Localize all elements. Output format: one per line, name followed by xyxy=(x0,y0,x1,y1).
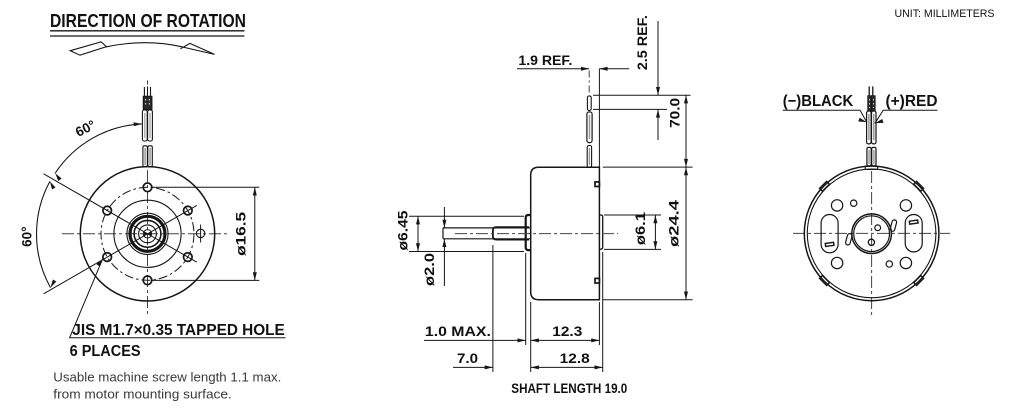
front tapped hole upper-right xyxy=(184,206,193,215)
rotation arrow open head left xyxy=(70,42,106,55)
svg-text:1.9 REF.: 1.9 REF. xyxy=(518,53,572,68)
rear oval slot left xyxy=(821,215,838,253)
arrow arc2 bottom xyxy=(51,280,57,288)
rear capsule right of bearing xyxy=(890,219,897,231)
body top extension right xyxy=(603,166,693,168)
arrow arc1 at bundle xyxy=(134,122,142,126)
front side small hole xyxy=(196,229,204,237)
front thick circle r17.7 xyxy=(130,216,165,251)
side body xyxy=(531,167,600,300)
svg-text:70.0: 70.0 xyxy=(668,98,683,128)
svg-text:6 PLACES: 6 PLACES xyxy=(70,343,141,360)
7.0 dimension line xyxy=(453,366,493,368)
front spoke 210-30 xyxy=(44,205,197,293)
svg-text:Usable machine screw length 1.: Usable machine screw length 1.1 max. xyxy=(53,370,281,385)
dia16.5 label xyxy=(233,211,248,256)
front bolt circle dash-dot xyxy=(101,187,194,280)
front shaft bowtie wedges xyxy=(144,232,151,236)
front circle r8.9 xyxy=(139,225,157,243)
rear small hole in bearing top-right xyxy=(875,225,881,231)
front tapped hole bottom xyxy=(143,276,152,285)
JIS leader line xyxy=(70,259,286,338)
svg-text:from motor mounting surface.: from motor mounting surface. xyxy=(53,387,232,402)
arrow arc2 top xyxy=(50,181,56,189)
svg-text:12.8: 12.8 xyxy=(560,351,591,366)
rear bearing circle inner xyxy=(854,216,890,252)
svg-text:12.3: 12.3 xyxy=(552,324,583,339)
rear hole LL xyxy=(831,257,842,268)
dia6.1 label xyxy=(633,212,648,246)
side wire lower inner xyxy=(588,148,590,165)
svg-text:SHAFT LENGTH 19.0: SHAFT LENGTH 19.0 xyxy=(511,381,627,396)
front circle r33.6 xyxy=(114,200,181,267)
black leader arrow xyxy=(858,118,867,123)
12.3 dimension line xyxy=(531,339,600,341)
rear hole UR xyxy=(900,200,911,211)
side wire insulation xyxy=(587,112,592,143)
title double underline xyxy=(50,31,245,36)
rear hole LR xyxy=(900,257,911,268)
front tapped hole lower-right xyxy=(184,253,193,262)
rear wire lower pair xyxy=(867,147,871,165)
front side hole tick xyxy=(200,225,202,243)
70.0 label xyxy=(668,98,683,128)
front horizontal centerline xyxy=(62,233,229,235)
rear small hole upper xyxy=(851,200,857,206)
arrow arc1 at spoke xyxy=(55,173,61,181)
dia6.1 arrows xyxy=(653,215,657,249)
rotation arrow arc xyxy=(106,43,182,47)
rear wire thin pair xyxy=(869,86,873,95)
60deg label top xyxy=(73,117,98,140)
rear wire main pair xyxy=(867,111,872,144)
front spoke 150-330 xyxy=(44,174,197,262)
dia16.5 dimension line xyxy=(254,187,256,280)
60deg arc lower xyxy=(37,181,51,287)
side wire inner dash xyxy=(589,115,591,139)
1.9REF dimension line xyxy=(517,68,629,70)
dia24.4 dimension line xyxy=(685,167,687,300)
side terminal tab top xyxy=(595,182,599,187)
rear face extension up xyxy=(598,69,600,167)
svg-text:7.0: 7.0 xyxy=(457,351,478,366)
ext line rear boss down xyxy=(602,252,604,372)
dia16.5 arrow down xyxy=(253,272,257,280)
1.0MAX dimension line xyxy=(424,339,526,341)
svg-text:60°: 60° xyxy=(20,226,35,246)
front circle r13.5 xyxy=(134,220,161,247)
rear oval slot right xyxy=(905,215,922,252)
ext line rear face down xyxy=(598,302,600,345)
dia24.4 label xyxy=(667,199,682,247)
ext line front face xyxy=(530,302,532,372)
front shaft circle xyxy=(143,230,151,238)
front vertical centerline xyxy=(147,81,149,315)
rear wire collar xyxy=(865,166,877,170)
rear vertical centerline xyxy=(871,171,873,315)
JIS leader arrow xyxy=(96,259,102,267)
side shaft sleeve xyxy=(493,227,529,239)
12.3 arrows xyxy=(531,338,600,342)
2.5REF dim arrows xyxy=(657,21,659,140)
side shaft xyxy=(443,228,531,239)
rear oval slot right bar xyxy=(909,220,918,224)
rear crimp tab UL xyxy=(820,181,830,191)
dia6.1 dimension line xyxy=(654,215,656,249)
rear crimp tab LR xyxy=(914,276,924,286)
rear small hole in bearing bottom xyxy=(868,239,874,245)
svg-text:(+)RED: (+)RED xyxy=(886,93,938,110)
front tapped hole upper-left xyxy=(103,206,112,215)
red leader xyxy=(875,110,938,123)
rear bearing circle outer xyxy=(852,214,892,254)
side wire bare tip xyxy=(587,96,591,111)
dia6.45 label xyxy=(396,210,411,251)
2.5REF label xyxy=(635,15,650,70)
1.0MAX arrow xyxy=(518,338,526,342)
svg-text:(−)BLACK: (−)BLACK xyxy=(783,93,854,110)
svg-text:UNIT: MILLIMETERS: UNIT: MILLIMETERS xyxy=(895,8,995,20)
70.0 dimension line xyxy=(685,95,687,167)
60deg arc upper xyxy=(55,124,142,173)
dia6.45 arrows xyxy=(416,216,420,251)
black leader xyxy=(783,110,867,122)
svg-text:ø24.4: ø24.4 xyxy=(667,199,682,247)
rear crimp tab UR xyxy=(914,181,924,191)
dia16.5 arrow up xyxy=(253,187,257,195)
1.9REF arrows xyxy=(581,67,608,71)
dia6.45 dimension line xyxy=(417,216,419,251)
side centerline xyxy=(455,233,618,235)
red leader arrow xyxy=(875,119,884,123)
svg-text:1.0 MAX.: 1.0 MAX. xyxy=(425,324,491,339)
svg-text:2.5 REF.: 2.5 REF. xyxy=(635,15,650,70)
svg-text:ø2.0: ø2.0 xyxy=(422,253,437,286)
side rear boss xyxy=(599,215,602,249)
body bottom extension right xyxy=(603,299,693,301)
dia6.1 ext lines xyxy=(604,215,661,249)
svg-text:JIS M1.7×0.35 TAPPED HOLE: JIS M1.7×0.35 TAPPED HOLE xyxy=(72,322,284,339)
rear hole UL xyxy=(831,200,842,211)
70.0 arrows xyxy=(684,95,688,167)
60deg label left xyxy=(20,226,35,246)
front tapped hole lower-left xyxy=(103,253,112,262)
side wire lower tube xyxy=(587,146,591,168)
2.5REF ext lines xyxy=(593,95,691,109)
rear small hole lower xyxy=(886,261,892,267)
side wire centerline xyxy=(588,71,590,94)
front tapped hole top xyxy=(143,183,152,192)
svg-text:ø6.45: ø6.45 xyxy=(396,210,411,251)
12.8 arrows xyxy=(531,365,603,369)
dia24.4 arrows xyxy=(684,167,688,300)
dia2.0 dimension line xyxy=(443,207,445,286)
ext line sleeve end xyxy=(492,245,494,372)
svg-text:ø16.5: ø16.5 xyxy=(233,211,248,256)
rear wire dark sleeve pair xyxy=(868,96,872,111)
dia16.5 extension lines xyxy=(153,187,260,280)
dia2.0 arrows xyxy=(442,220,446,247)
front outer circle xyxy=(80,167,214,301)
svg-text:DIRECTION OF ROTATION: DIRECTION OF ROTATION xyxy=(50,11,246,31)
rear outer circle xyxy=(804,166,939,301)
rotation arrow open head right xyxy=(180,43,214,54)
rear horizontal centerline xyxy=(793,232,950,234)
svg-text:ø6.1: ø6.1 xyxy=(633,212,648,246)
12.8 dimension line xyxy=(531,366,603,368)
dia6.45 ext lines xyxy=(409,216,524,251)
ext line boss face xyxy=(525,253,527,345)
front wire bundle xyxy=(142,87,152,167)
rear inner rim xyxy=(807,169,936,298)
7.0 arrow xyxy=(485,365,493,369)
dia2.0 label xyxy=(422,253,437,286)
front circle r20.6 xyxy=(127,213,168,254)
rear capsule left of bearing xyxy=(845,233,852,245)
rear oval slot left bar xyxy=(825,242,834,246)
rear crimp tab LL xyxy=(820,276,830,286)
side terminal tab bottom xyxy=(595,278,599,283)
side front boss xyxy=(526,215,531,250)
